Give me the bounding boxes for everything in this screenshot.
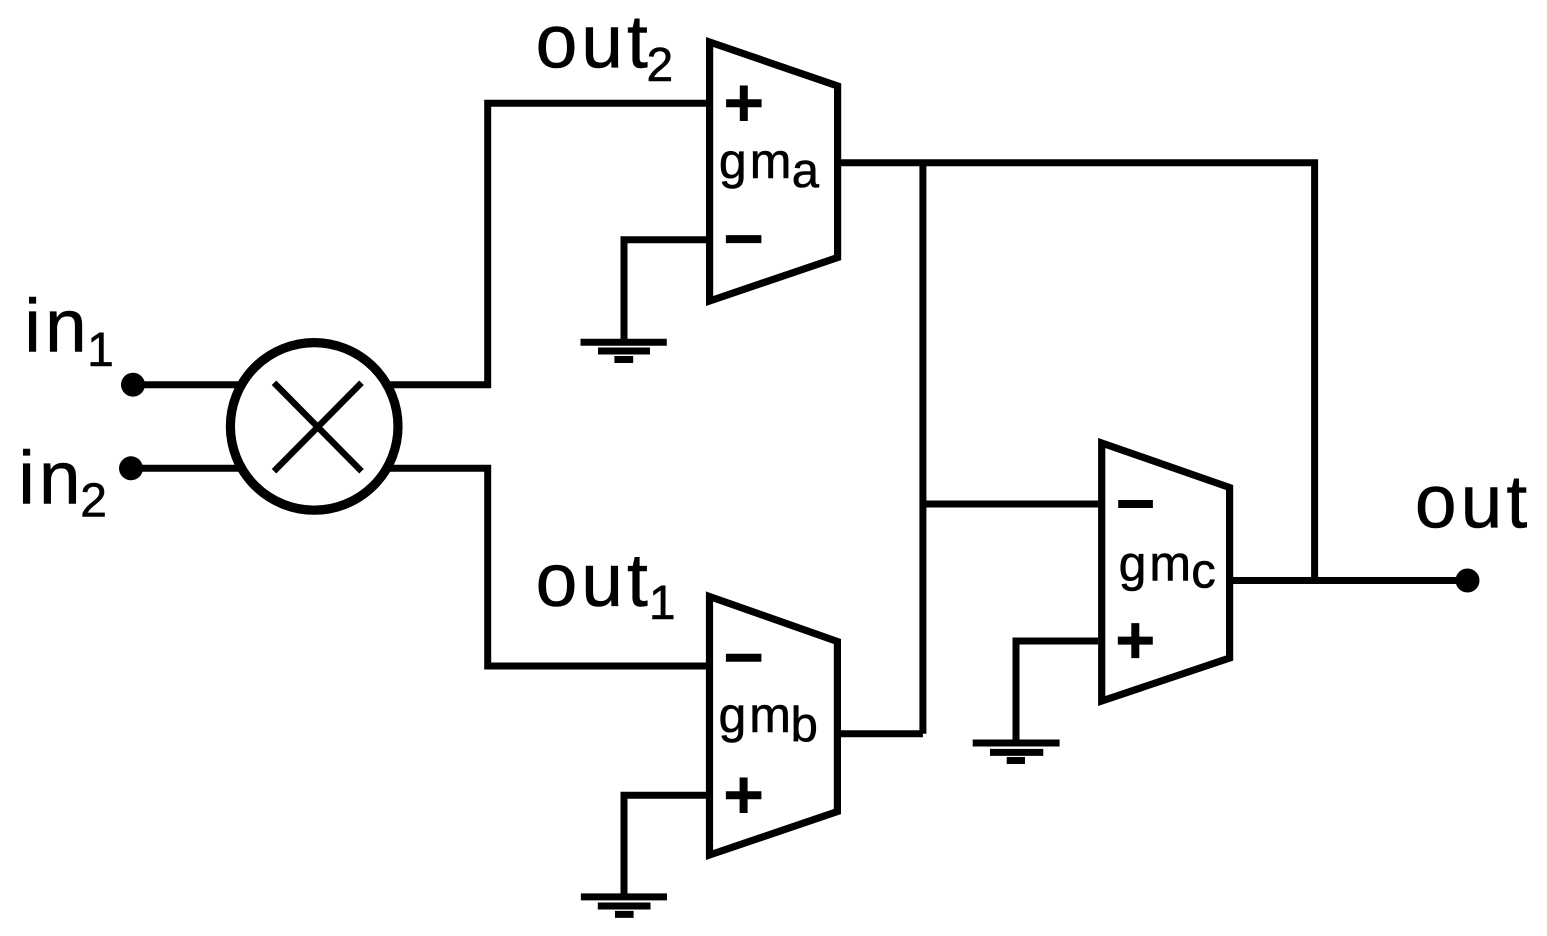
wire in1 to mixer <box>133 381 245 388</box>
svg-text:2: 2 <box>80 474 107 527</box>
wire gm_a - input to ground <box>624 240 706 340</box>
label in2 <box>18 435 107 527</box>
gm_b - sign <box>726 654 762 662</box>
wire mixer lower output to gm_b - input <box>385 468 706 666</box>
gm_b + sign <box>726 778 762 814</box>
gm_c - sign <box>1118 500 1153 508</box>
mixer X <box>274 383 362 471</box>
svg-text:in: in <box>24 284 90 368</box>
svg-text:out: out <box>536 0 652 84</box>
op-amp gm_a body <box>710 42 838 301</box>
svg-text:out: out <box>536 538 652 622</box>
wire gm_b output to junction <box>837 730 923 737</box>
op-amp gm_c body <box>1102 443 1230 701</box>
gm_c + sign <box>1118 623 1153 658</box>
wire in2 to mixer <box>131 465 245 472</box>
ground (gm_c) <box>973 743 1060 761</box>
svg-text:1: 1 <box>87 324 114 377</box>
svg-text:2: 2 <box>647 39 674 92</box>
wire mixer upper output to gm_a + input <box>385 103 706 385</box>
op-amp gm_b body <box>710 597 838 856</box>
label gm_c <box>1119 535 1216 598</box>
gm_a - sign <box>726 235 762 243</box>
svg-text:in: in <box>18 435 84 519</box>
ground (gm_a) <box>581 342 667 359</box>
wire gm_c + input to ground <box>1016 641 1098 741</box>
wire junction vertical gm_a/gm_b outputs <box>919 163 926 734</box>
wire junction to gm_c - input <box>923 501 1098 508</box>
wire gm_c output to out terminal <box>1230 577 1468 584</box>
svg-text:1: 1 <box>649 577 676 630</box>
svg-text:c: c <box>1191 544 1216 598</box>
svg-text:out: out <box>1415 460 1531 544</box>
svg-text:gm: gm <box>719 687 794 743</box>
svg-text:gm: gm <box>1119 535 1194 591</box>
wire gm_b + input to ground <box>624 795 706 894</box>
label gm_b <box>719 687 818 752</box>
label gm_a <box>719 133 820 198</box>
label in1 <box>24 284 114 377</box>
node in2 terminal dot <box>119 456 143 480</box>
mixer (multiplier) circle <box>230 343 398 511</box>
label out1 <box>536 538 676 630</box>
svg-text:a: a <box>792 144 820 198</box>
ground (gm_b) <box>581 897 667 915</box>
node in1 terminal dot <box>121 373 145 397</box>
label out2 <box>536 0 674 92</box>
wire gm_a output to feedback corner <box>838 163 1315 581</box>
svg-text:gm: gm <box>719 133 794 189</box>
gm_a + sign <box>726 86 762 122</box>
label out <box>1415 460 1531 544</box>
node out terminal dot <box>1456 569 1480 593</box>
svg-text:b: b <box>791 698 818 752</box>
